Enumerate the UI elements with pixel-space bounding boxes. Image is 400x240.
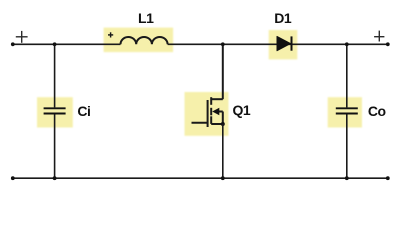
capacitor Ci plates xyxy=(44,108,66,113)
node dot bottom Ci junction xyxy=(53,176,57,180)
node dot top Co junction xyxy=(345,42,349,46)
node dot bottom Co junction xyxy=(345,176,349,180)
wire Ci branch lower xyxy=(54,114,56,178)
node dot bottom-left end xyxy=(11,176,15,180)
wire Ci branch upper xyxy=(54,44,56,107)
drain vertical wire xyxy=(222,44,224,99)
svg-text:Co: Co xyxy=(368,103,386,119)
wire bottom rail xyxy=(13,177,388,179)
channel top dash xyxy=(210,97,212,105)
node dot top-right end xyxy=(386,42,390,46)
node dot bottom-right end xyxy=(386,176,390,180)
highlight box D1 xyxy=(269,30,298,59)
node dot top Q1 junction xyxy=(221,42,225,46)
wire Q1 source to bottom rail xyxy=(222,124,224,178)
terminal + top left xyxy=(16,31,28,43)
drain horizontal xyxy=(211,98,223,100)
source horizontal xyxy=(211,123,223,125)
channel bottom dash xyxy=(210,116,212,124)
channel mid dash xyxy=(210,108,212,116)
wire top rail right segment xyxy=(168,43,388,45)
gate lead xyxy=(192,122,208,124)
transistor Q1 (N-MOSFET) xyxy=(192,44,223,127)
highlight box L1 xyxy=(104,28,174,52)
highlight box Q1 xyxy=(185,92,229,136)
wire top rail left segment xyxy=(13,43,121,45)
node dot top Ci junction xyxy=(53,42,57,46)
svg-text:Ci: Ci xyxy=(77,103,90,119)
diode D1 xyxy=(277,36,292,50)
Q1 body arrow xyxy=(212,108,219,115)
node dot bottom Q1 junction xyxy=(221,176,225,180)
node dot top-left end xyxy=(11,42,15,46)
highlight box Co xyxy=(328,97,362,127)
capacitor Co plates xyxy=(336,108,358,113)
highlight box Ci xyxy=(37,97,73,127)
body line xyxy=(219,111,223,113)
Q1 source junction dot xyxy=(221,122,225,126)
svg-text:L1: L1 xyxy=(138,10,154,26)
L1 polarity + xyxy=(108,32,113,37)
wire Co branch lower xyxy=(346,114,348,178)
svg-text:Q1: Q1 xyxy=(233,102,251,118)
inductor L1 winding xyxy=(121,37,168,44)
gate bar xyxy=(207,100,209,127)
terminal + top right xyxy=(374,31,384,42)
svg-text:D1: D1 xyxy=(274,10,292,26)
wire Co branch upper xyxy=(346,44,348,107)
